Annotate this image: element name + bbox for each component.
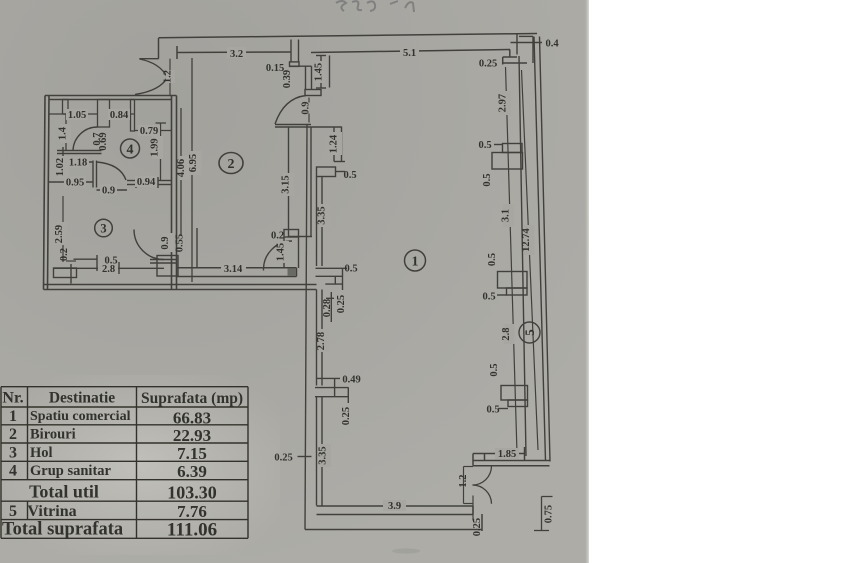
dim line 0.55 right bbox=[196, 228, 198, 269]
dim line along pillars bbox=[506, 67, 518, 453]
room label 2 bbox=[219, 153, 243, 174]
svg-text:0.95: 0.95 bbox=[66, 178, 84, 189]
svg-text:3.15: 3.15 bbox=[281, 175, 292, 193]
svg-text:0.28: 0.28 bbox=[322, 299, 333, 317]
dim line 1.4 vertical on left wall bbox=[65, 114, 67, 151]
svg-text:0.25: 0.25 bbox=[472, 518, 483, 536]
svg-text:1.24: 1.24 bbox=[329, 134, 340, 153]
svg-text:0.2: 0.2 bbox=[271, 231, 284, 242]
dim line 1.05 bbox=[49, 113, 98, 115]
wall: room4 bottom left piece bbox=[127, 180, 136, 182]
wall: room4 bottom right piece bbox=[158, 180, 172, 182]
svg-text:Total suprafata: Total suprafata bbox=[2, 520, 123, 540]
wall: small vertical (double) bbox=[92, 161, 94, 188]
svg-text:5.1: 5.1 bbox=[403, 48, 416, 59]
svg-text:1.45: 1.45 bbox=[314, 63, 325, 81]
svg-text:Hol: Hol bbox=[30, 445, 53, 461]
tick bbox=[62, 147, 64, 157]
dim line 12.74 overall bbox=[522, 70, 539, 450]
svg-text:3: 3 bbox=[9, 445, 17, 462]
dim 3.15 rotated bbox=[281, 173, 295, 196]
wall: inner pair upper bbox=[310, 127, 312, 238]
svg-text:1.99: 1.99 bbox=[150, 138, 161, 156]
svg-text:0.25: 0.25 bbox=[336, 295, 347, 313]
door arc: room 3 lower right bbox=[134, 230, 164, 260]
room label 5 (rotated small) bbox=[519, 322, 540, 343]
svg-text:2.78: 2.78 bbox=[316, 332, 327, 350]
wall: top-left corner drop bbox=[158, 38, 160, 59]
svg-text:0.94: 0.94 bbox=[137, 177, 156, 188]
dim line 4.06 vertical bbox=[180, 108, 182, 235]
tick at left end of 3.2 bbox=[176, 46, 178, 59]
svg-text:6.95: 6.95 bbox=[188, 154, 199, 172]
exterior boundary bottom bbox=[305, 529, 482, 531]
svg-text:0.69: 0.69 bbox=[98, 132, 109, 150]
svg-text:0.5: 0.5 bbox=[343, 170, 356, 181]
dim line 3.15 vertical bbox=[288, 127, 290, 237]
svg-text:Vitrina: Vitrina bbox=[27, 503, 76, 520]
bottom-right exterior dims bbox=[534, 497, 553, 531]
svg-text:0.25: 0.25 bbox=[341, 407, 352, 425]
svg-text:Spatiu comercial: Spatiu comercial bbox=[30, 409, 131, 424]
svg-text:0.5: 0.5 bbox=[486, 405, 499, 416]
door arc: room 2 right door (0.9) bbox=[275, 96, 306, 125]
dim 3.35 rotated lower bbox=[318, 444, 332, 467]
dim 1.2 rotated (entrance) bbox=[163, 70, 176, 83]
dim 3.1 rotated bbox=[501, 204, 515, 227]
svg-text:0.5: 0.5 bbox=[489, 363, 500, 376]
svg-text:12.74: 12.74 bbox=[521, 227, 532, 251]
dim 1.05 bbox=[66, 109, 88, 121]
svg-text:1.2: 1.2 bbox=[458, 474, 469, 487]
svg-text:7.76: 7.76 bbox=[177, 502, 207, 521]
svg-text:0.39: 0.39 bbox=[282, 70, 293, 88]
svg-text:1.85: 1.85 bbox=[498, 449, 516, 460]
wall: block top (double) bbox=[45, 95, 177, 97]
dim 3.35 rotated bbox=[317, 204, 331, 227]
handwriting at top bbox=[336, 1, 414, 12]
svg-text:Grup sanitar: Grup sanitar bbox=[30, 463, 112, 479]
svg-text:5: 5 bbox=[522, 329, 537, 336]
pillar P2 lower box bbox=[507, 288, 528, 295]
dim 2.8 rotated vitrina bbox=[501, 324, 515, 344]
door arcs: entrance top-left double leaf (1.2) bbox=[140, 59, 168, 77]
svg-text:Destinatie: Destinatie bbox=[49, 390, 115, 407]
dim 2.97 rotated bbox=[498, 91, 512, 115]
ticks 0.28/0.25 bbox=[330, 292, 332, 322]
svg-text:111.06: 111.06 bbox=[167, 520, 217, 541]
svg-text:3.35: 3.35 bbox=[317, 206, 328, 224]
wall stub a top bbox=[63, 100, 69, 115]
wall pair below stub bbox=[305, 66, 307, 89]
dim 2.8 room3 bbox=[98, 264, 118, 276]
svg-text:1.2: 1.2 bbox=[163, 70, 174, 83]
svg-text:66.83: 66.83 bbox=[173, 409, 211, 428]
dim 0.94 bbox=[135, 176, 157, 188]
svg-text:0.84: 0.84 bbox=[110, 110, 129, 121]
svg-text:0.5: 0.5 bbox=[482, 292, 495, 303]
dim line 1.99 vertical bbox=[160, 123, 162, 181]
dim 6.95 rotated bbox=[188, 151, 202, 175]
svg-text:2.8: 2.8 bbox=[102, 264, 115, 275]
dim 2.78 rotated bbox=[316, 329, 330, 352]
svg-text:0.49: 0.49 bbox=[342, 375, 360, 386]
dim line 0.5 room3 bbox=[74, 258, 98, 260]
svg-text:1.02: 1.02 bbox=[55, 158, 66, 176]
svg-text:Total util: Total util bbox=[29, 482, 99, 502]
wall pair (3.35) bbox=[316, 177, 318, 267]
svg-text:3.2: 3.2 bbox=[230, 49, 243, 60]
svg-text:0.5: 0.5 bbox=[487, 253, 498, 266]
dim line 1.85 bbox=[485, 453, 525, 455]
svg-text:103.30: 103.30 bbox=[167, 483, 217, 503]
dim ticks 0.2 bbox=[66, 260, 76, 262]
svg-text:0.75: 0.75 bbox=[544, 505, 555, 523]
dim 0.95 bbox=[64, 177, 86, 189]
room label 3 bbox=[95, 219, 113, 237]
svg-text:1.4: 1.4 bbox=[58, 126, 69, 140]
door arc: room 2 bottom door (1.45) bbox=[263, 241, 292, 271]
dim 5.1 bbox=[400, 47, 419, 60]
pillar P3 lower box bbox=[508, 400, 528, 407]
svg-text:0.5: 0.5 bbox=[344, 264, 357, 275]
door arcs: double door bottom right (1.2) bbox=[473, 466, 492, 485]
svg-text:Nr.: Nr. bbox=[2, 390, 23, 407]
wall: room 2 bottom (double) bbox=[177, 267, 297, 269]
svg-text:4: 4 bbox=[9, 463, 17, 480]
pillar P3 main box bbox=[501, 386, 528, 401]
svg-text:0.5: 0.5 bbox=[482, 173, 493, 186]
door arc: room 3 to room 4 lower bbox=[97, 162, 126, 180]
svg-text:0.9: 0.9 bbox=[102, 186, 115, 197]
dim line 1.45 vertical bbox=[283, 237, 285, 268]
dim 4.06 rotated bbox=[176, 156, 190, 180]
dim 1.45 rotated top bbox=[314, 61, 327, 83]
svg-text:0.9: 0.9 bbox=[160, 236, 171, 249]
svg-text:0.4: 0.4 bbox=[545, 39, 559, 50]
dim 1.02 rotated bbox=[55, 156, 69, 178]
outer single boundary line left bbox=[305, 125, 307, 530]
tick 0.25 left of wall bbox=[298, 456, 312, 458]
table column: Nr divider bbox=[27, 387, 29, 480]
top-right corner assembly bbox=[516, 34, 518, 55]
svg-text:2.97: 2.97 bbox=[498, 94, 509, 112]
wall pair (2.78) bbox=[316, 290, 318, 386]
pillar on wall (0.5) bbox=[317, 167, 336, 177]
svg-text:4: 4 bbox=[127, 143, 134, 158]
svg-text:0.25: 0.25 bbox=[274, 453, 292, 464]
dim line 0.84 bbox=[110, 113, 135, 115]
dim 0.9 rotated passage bbox=[160, 233, 174, 252]
smudge bottom bbox=[392, 548, 420, 553]
svg-text:1.45: 1.45 bbox=[276, 243, 287, 261]
svg-text:1.18: 1.18 bbox=[69, 158, 87, 169]
svg-text:1: 1 bbox=[412, 255, 419, 270]
wall: block outer left (double) bbox=[44, 96, 46, 290]
tick 0.2 bbox=[289, 236, 312, 238]
svg-text:Suprafata (mp): Suprafata (mp) bbox=[141, 390, 243, 407]
dim 1.99 rotated bbox=[150, 136, 164, 159]
dim 1.85 bbox=[495, 448, 519, 460]
dim line 0.79 bbox=[135, 130, 172, 132]
dim 1.45 rotated room2 door bbox=[276, 241, 290, 263]
dim 0.84 bbox=[108, 109, 130, 121]
door arc: hall to room 4 upper bbox=[73, 127, 98, 150]
protrusion box (0.49) bbox=[316, 377, 340, 379]
step at right end of 5.1 bbox=[509, 50, 511, 58]
wall pier c bbox=[131, 100, 135, 132]
svg-text:Birouri: Birouri bbox=[30, 427, 76, 443]
svg-text:3: 3 bbox=[100, 222, 106, 236]
svg-text:2.8: 2.8 bbox=[501, 327, 512, 340]
svg-text:5: 5 bbox=[9, 503, 17, 520]
svg-text:3.14: 3.14 bbox=[224, 264, 243, 275]
svg-text:4.06: 4.06 bbox=[176, 159, 187, 177]
dim line 1.18 bbox=[63, 161, 93, 163]
passage threshold room3-room1 bbox=[150, 259, 177, 261]
dim 1.18 bbox=[67, 157, 89, 169]
svg-text:0.9: 0.9 bbox=[301, 101, 312, 114]
dim line 1.45 vertical with witness lines bbox=[320, 56, 322, 89]
wall: window outer pair bbox=[534, 37, 546, 462]
dim 1.24 rotated bbox=[329, 132, 343, 155]
table column: suprafata divider bbox=[136, 387, 138, 539]
table row lines bbox=[1, 386, 248, 388]
dim 1.24 line bbox=[333, 127, 335, 162]
wall: outer top line bbox=[159, 34, 538, 38]
dim 12.74 rotated bbox=[521, 225, 535, 255]
dim 1.4 rotated bbox=[58, 124, 72, 143]
pillar P2 main box bbox=[498, 272, 528, 289]
junction box bbox=[316, 267, 343, 269]
svg-text:0.55: 0.55 bbox=[175, 234, 186, 252]
svg-text:2: 2 bbox=[228, 157, 235, 172]
tick 0.5 above pillar1 bbox=[494, 144, 503, 146]
wall: block bottom (double) bbox=[44, 284, 317, 286]
table outer borders bbox=[0, 387, 2, 539]
room label 1 bbox=[405, 250, 426, 271]
dim 3.2 bbox=[227, 47, 246, 60]
dim 0.79 bbox=[138, 125, 160, 137]
svg-text:0.79: 0.79 bbox=[140, 126, 158, 137]
wall: vitrina inner line bbox=[519, 56, 526, 456]
svg-text:2: 2 bbox=[9, 426, 17, 443]
tick 0.5 below pillar2 bbox=[497, 294, 507, 296]
dim 0.9 hall bbox=[100, 185, 117, 197]
svg-text:0.25: 0.25 bbox=[479, 59, 497, 70]
svg-text:3.9: 3.9 bbox=[388, 501, 401, 512]
dim 3.14 bbox=[221, 263, 246, 275]
column box bottom-left of room 3 bbox=[54, 268, 77, 278]
svg-text:1.05: 1.05 bbox=[68, 110, 86, 121]
svg-text:1: 1 bbox=[9, 408, 17, 425]
pillar P1 main box bbox=[492, 153, 523, 170]
threshold lines under door bbox=[275, 124, 311, 126]
dim line 0.9 dashes bbox=[308, 98, 310, 103]
wall: hall bottom (double) bbox=[57, 150, 102, 152]
wall: block divider to room 2 (double) bbox=[171, 96, 173, 290]
stub box 2 bbox=[305, 90, 321, 96]
svg-text:6.39: 6.39 bbox=[177, 462, 207, 481]
niche vertical bbox=[341, 127, 343, 162]
svg-text:7.15: 7.15 bbox=[177, 444, 207, 463]
svg-text:3.1: 3.1 bbox=[501, 209, 512, 222]
svg-text:0.2: 0.2 bbox=[59, 248, 70, 261]
dim line 0.9 bbox=[97, 189, 128, 191]
svg-text:3.35: 3.35 bbox=[318, 446, 329, 464]
dim 2.59 rotated bbox=[54, 222, 68, 245]
svg-text:22.93: 22.93 bbox=[173, 426, 211, 445]
pillar P1 upper box bbox=[503, 144, 523, 153]
wall: inner top line (dim line 3.2 / 5.1) bbox=[177, 51, 291, 54]
room label 4 bbox=[121, 139, 140, 158]
pier 0.2 at room2 bottom right bbox=[284, 230, 299, 238]
dim line 0.95 bbox=[49, 181, 94, 183]
top wall stub near 0.15/0.39 bbox=[290, 40, 330, 96]
wall pair (3.35 lower) bbox=[316, 397, 318, 506]
svg-text:2.59: 2.59 bbox=[54, 225, 65, 243]
dim line 6.95 vertical bbox=[191, 58, 193, 282]
dim line 2.8 / opening bbox=[54, 267, 164, 269]
wall stub b (double) bbox=[98, 100, 110, 128]
svg-text:0.5: 0.5 bbox=[478, 140, 491, 151]
dim 3.9 bbox=[383, 500, 406, 512]
dim line 2.59 vertical bbox=[62, 196, 64, 262]
